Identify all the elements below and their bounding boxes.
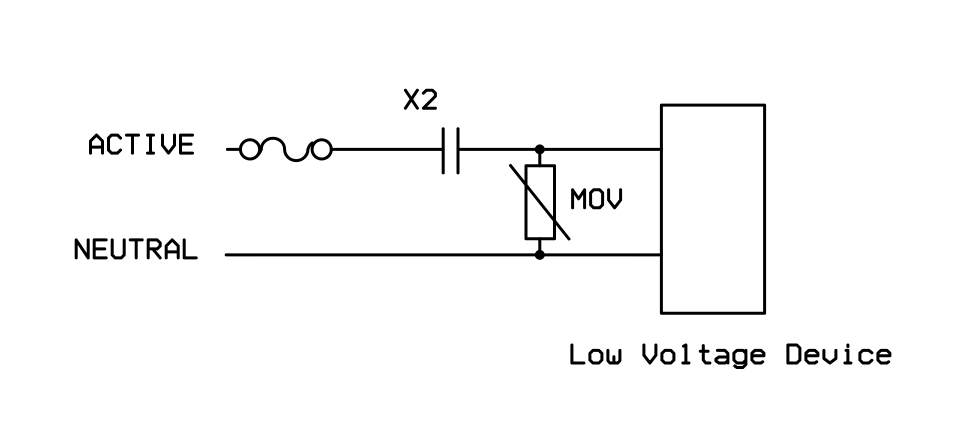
junction (neutral/MOV): [535, 250, 545, 260]
wire (active lead into fuse): [227, 148, 240, 151]
node ACTIVE: [91, 135, 193, 153]
label MOV: [573, 190, 621, 208]
varistor MOV: [511, 166, 570, 240]
wire (junction to varistor top): [538, 149, 541, 165]
device box U1 (Low Voltage Device): [661, 105, 764, 313]
label Low Voltage Device: [572, 345, 890, 368]
junction (active/MOV): [535, 144, 545, 154]
wire (varistor bottom to neutral): [538, 239, 541, 255]
fuse (circle-squiggle-circle): [240, 138, 331, 160]
wire (capacitor to device box): [458, 148, 662, 151]
wire (neutral line to device box): [226, 253, 661, 256]
capacitor X2: [443, 129, 458, 173]
wire (fuse to capacitor): [331, 148, 443, 151]
label X2 (capacitor value): [405, 90, 435, 108]
node NEUTRAL: [76, 240, 196, 258]
